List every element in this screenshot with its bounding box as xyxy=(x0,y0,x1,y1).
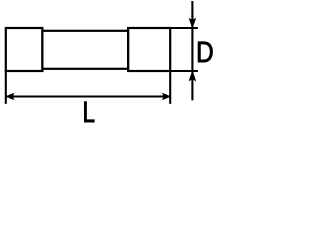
label D xyxy=(198,42,212,62)
arrowhead D down xyxy=(189,18,196,29)
fuse body (cartridge tube) xyxy=(42,31,128,69)
left end cap xyxy=(6,28,43,71)
right end cap xyxy=(128,28,170,71)
arrowhead L right xyxy=(162,93,171,100)
label L xyxy=(84,102,94,123)
dimension line L xyxy=(6,95,170,97)
arrowhead D up xyxy=(189,71,196,82)
extension line D bottom xyxy=(170,70,198,72)
arrowhead L left xyxy=(6,93,15,100)
extension line L left xyxy=(5,71,7,104)
extension line D top xyxy=(170,27,198,29)
extension line L right xyxy=(169,71,171,104)
dimension line D xyxy=(191,1,193,100)
